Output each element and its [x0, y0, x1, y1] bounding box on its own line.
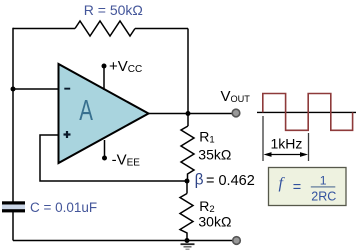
svg-text:30kΩ: 30kΩ [198, 213, 231, 229]
node output junction [186, 111, 191, 116]
wire inverting input [13, 88, 59, 90]
wire left rail lower [12, 212, 14, 241]
capacitor C [2, 201, 25, 212]
power -VEE [102, 140, 140, 169]
resistor R [75, 21, 135, 36]
svg-text:β: β [195, 172, 204, 189]
svg-text:C = 0.01uF: C = 0.01uF [30, 200, 97, 215]
terminal VOUT [232, 109, 240, 117]
wire bottom rail [13, 240, 233, 242]
svg-text:= 0.462: = 0.462 [206, 173, 255, 189]
svg-text:35kΩ: 35kΩ [198, 147, 231, 163]
ground [181, 244, 195, 249]
wire output [148, 113, 232, 115]
resistor R1 [181, 114, 194, 182]
resistor R2 [180, 181, 193, 241]
dimension 1kHz [263, 116, 309, 161]
waveform square wave [263, 94, 353, 131]
svg-text:1: 1 [320, 174, 327, 188]
wire non-inverting input [40, 135, 187, 181]
op-amp A [59, 64, 149, 163]
power +VCC [102, 58, 143, 90]
node beta junction [185, 179, 190, 184]
svg-text:A: A [79, 96, 93, 127]
svg-text:1kHz: 1kHz [271, 136, 303, 152]
wire top right segment [135, 28, 188, 30]
node ground junction [185, 238, 190, 243]
wire top left segment [13, 28, 75, 30]
terminal bottom [233, 237, 241, 245]
node feedback junction [11, 87, 16, 92]
wire right rail [187, 29, 189, 114]
svg-text:2RC: 2RC [311, 189, 336, 203]
waveform axis [257, 111, 356, 113]
svg-text:R = 50kΩ: R = 50kΩ [84, 2, 143, 18]
svg-text:=: = [293, 179, 301, 195]
formula box f = 1/2RC [269, 168, 347, 206]
wire left rail upper [12, 28, 14, 202]
